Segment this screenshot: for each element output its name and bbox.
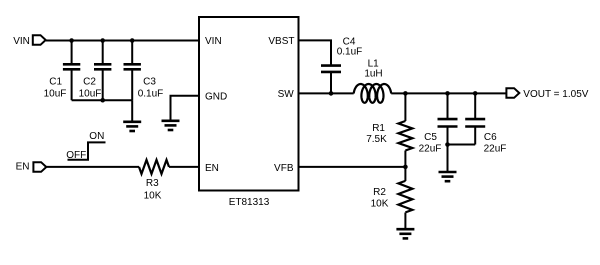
svg-text:ON: ON <box>89 131 104 142</box>
svg-text:R2: R2 <box>373 187 386 198</box>
svg-text:10uF: 10uF <box>79 88 102 99</box>
svg-text:10uF: 10uF <box>44 88 67 99</box>
svg-text:R1: R1 <box>372 123 385 134</box>
svg-text:VIN: VIN <box>205 36 222 47</box>
svg-text:0.1uF: 0.1uF <box>337 47 363 58</box>
svg-text:C5: C5 <box>424 132 437 143</box>
svg-text:10K: 10K <box>371 199 389 210</box>
svg-text:VBST: VBST <box>268 36 294 47</box>
svg-text:C2: C2 <box>83 77 96 88</box>
svg-text:22uF: 22uF <box>419 143 442 154</box>
svg-text:1uH: 1uH <box>364 68 382 79</box>
svg-text:OFF: OFF <box>66 150 86 161</box>
svg-text:0.1uF: 0.1uF <box>138 88 164 99</box>
svg-text:7.5K: 7.5K <box>366 134 387 145</box>
svg-text:GND: GND <box>205 92 227 103</box>
svg-text:VIN: VIN <box>13 36 30 47</box>
svg-text:C6: C6 <box>484 132 497 143</box>
svg-text:ET81313: ET81313 <box>229 197 270 208</box>
svg-text:22uF: 22uF <box>484 143 507 154</box>
svg-text:SW: SW <box>278 89 295 100</box>
svg-text:10K: 10K <box>144 190 162 201</box>
svg-text:C3: C3 <box>143 77 156 88</box>
svg-text:VFB: VFB <box>274 163 294 174</box>
svg-text:EN: EN <box>205 163 219 174</box>
svg-text:C1: C1 <box>49 77 62 88</box>
svg-text:EN: EN <box>16 162 30 173</box>
svg-text:R3: R3 <box>146 178 159 189</box>
svg-text:VOUT = 1.05V: VOUT = 1.05V <box>523 89 588 100</box>
